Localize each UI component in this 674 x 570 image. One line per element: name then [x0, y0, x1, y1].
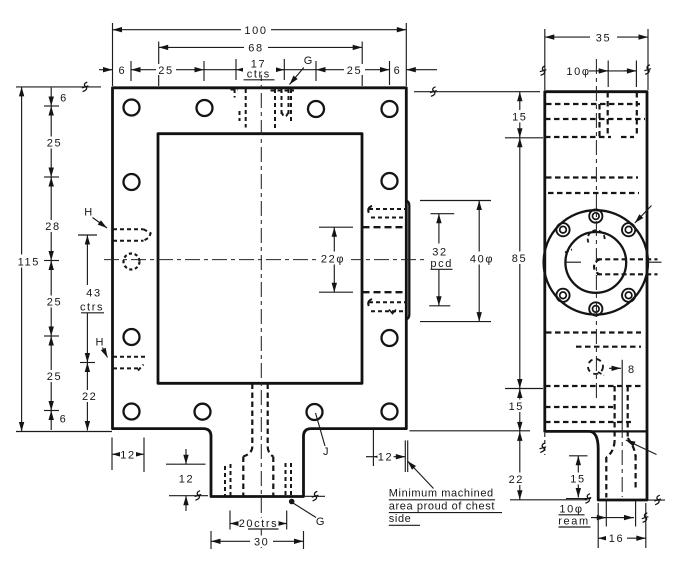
hidden tapped slots G at top edge [231, 89, 295, 128]
svg-text:25: 25 [47, 138, 62, 150]
svg-text:12: 12 [120, 449, 135, 461]
svg-text:15: 15 [512, 112, 527, 124]
bottom edge extension right with break [648, 499, 665, 501]
43 ctrs / 22 chain [78, 234, 97, 236]
svg-text:68: 68 [248, 43, 263, 55]
svg-text:100: 100 [244, 25, 267, 37]
svg-text:H: H [84, 207, 94, 219]
leader to neck bore [626, 440, 657, 455]
top extension lines [113, 23, 407, 86]
svg-text:28: 28 [45, 221, 60, 233]
svg-text:6: 6 [394, 65, 402, 77]
left chain 6/25/28/25/25/6 [44, 88, 59, 430]
svg-text:25: 25 [47, 371, 62, 383]
svg-text:22: 22 [509, 474, 524, 486]
svg-text:8: 8 [628, 364, 636, 376]
note: minimum machined area [408, 461, 434, 489]
svg-text:G: G [316, 516, 326, 528]
bottom face seam across neck [586, 430, 647, 432]
svg-text:area proud of chest: area proud of chest [389, 500, 495, 512]
hidden tapped holes G in neck bottom [225, 463, 291, 496]
break squiggles [82, 82, 89, 92]
svg-text:35: 35 [596, 33, 611, 45]
dim 68 [159, 46, 363, 48]
svg-text:H: H [96, 337, 106, 349]
label G bottom with leader dot [289, 499, 295, 505]
svg-text:32: 32 [432, 247, 447, 259]
svg-text:43: 43 [86, 288, 101, 300]
front view inner window opening [158, 134, 362, 384]
neck bottom left ext [305, 495, 325, 497]
30 [210, 531, 212, 549]
22 dia dimension [319, 226, 353, 228]
flange bolt holes [124, 100, 398, 421]
left side: 115 overall [16, 86, 101, 88]
svg-text:pcd: pcd [430, 258, 453, 270]
svg-text:10φ: 10φ [559, 503, 583, 515]
hidden pcd tapped holes at right edge [368, 206, 405, 314]
svg-text:115: 115 [18, 257, 40, 269]
hidden hole on centreline, left flange [124, 254, 140, 270]
extension line joining views at top [414, 91, 540, 93]
side view outline with bottom neck [545, 92, 647, 500]
svg-text:85: 85 [512, 253, 527, 265]
svg-text:22: 22 [82, 391, 97, 403]
label J with leader [316, 413, 326, 446]
hidden pocket H lower, left edge [113, 357, 146, 371]
svg-text:G: G [304, 55, 314, 67]
front view outer flange outline with bottom neck [113, 88, 407, 497]
svg-text:ream: ream [558, 515, 589, 527]
hidden detail side view [545, 92, 645, 498]
svg-text:12: 12 [179, 474, 194, 486]
svg-text:30: 30 [254, 536, 269, 548]
svg-text:6: 6 [60, 414, 68, 426]
svg-text:25: 25 [347, 65, 362, 77]
vertical 12 at neck [166, 463, 206, 465]
dim 10 dia at top [607, 61, 609, 88]
svg-text:20ctrs: 20ctrs [239, 518, 279, 530]
svg-text:40φ: 40φ [470, 253, 494, 265]
dim 100 [113, 29, 407, 31]
chest-side boss proud of right edge [406, 201, 409, 320]
hidden pocket projected at spigot centre [594, 259, 657, 274]
bottom: left 12 [111, 438, 113, 471]
centrelines side view [595, 59, 597, 402]
svg-text:15: 15 [570, 473, 585, 485]
svg-text:16: 16 [609, 533, 624, 545]
svg-text:ctrs: ctrs [247, 69, 271, 81]
spigot outer circle [544, 210, 648, 314]
svg-text:6: 6 [60, 93, 68, 105]
centrelines front view [260, 66, 262, 552]
10 dia ream [605, 501, 607, 527]
svg-text:Minimum machined: Minimum machined [389, 488, 494, 500]
dim 8 [609, 367, 621, 369]
dim 35 [544, 29, 546, 90]
svg-text:ctrs: ctrs [80, 302, 104, 314]
hidden 22 dia bore through chest side (right edge) [363, 226, 406, 228]
extension line joining views at bottom [410, 430, 531, 432]
dim 15 neck [569, 455, 588, 457]
svg-text:J: J [323, 446, 330, 458]
32 pcd dimension [431, 213, 455, 215]
svg-text:25: 25 [47, 297, 62, 309]
svg-text:15: 15 [509, 401, 524, 413]
left chain 15/85/15/22 [505, 137, 543, 139]
svg-text:10φ: 10φ [566, 66, 590, 78]
dashed extension below corner [544, 433, 546, 455]
leader to pcd hole [635, 206, 652, 224]
svg-text:12: 12 [378, 452, 393, 464]
six pcd tapped holes [556, 210, 635, 316]
svg-text:6: 6 [118, 65, 126, 77]
spigot bore circle [565, 232, 626, 293]
40 dia dimension [420, 200, 491, 202]
hidden tapped pocket H upper, left edge [113, 229, 151, 241]
top chain: 6 / 25 / 17ctrs / 25 / 6 [99, 69, 113, 71]
dim 16 [597, 503, 599, 548]
right 12 with machined-area ticks [372, 430, 374, 466]
svg-text:22φ: 22φ [321, 253, 345, 265]
svg-text:25: 25 [158, 65, 173, 77]
svg-text:side: side [389, 513, 412, 525]
hidden stepped bore in bottom neck [243, 384, 273, 497]
20 ctrs [229, 511, 231, 530]
